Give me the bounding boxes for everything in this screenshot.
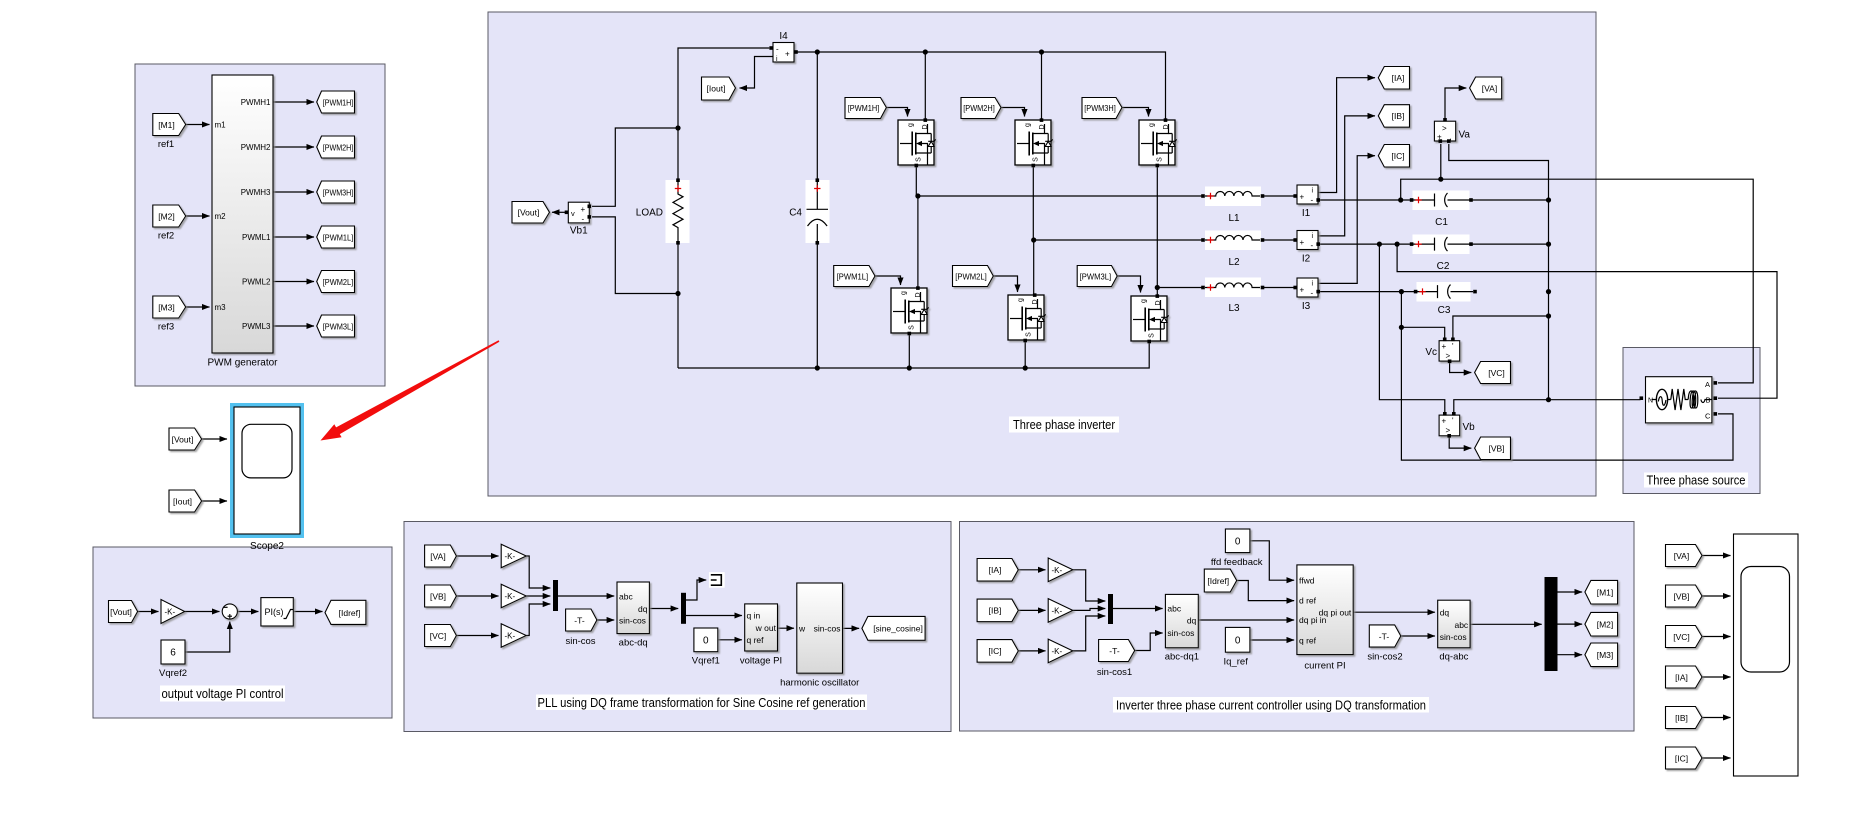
svg-text:[PWM3H]: [PWM3H] [1084,104,1116,113]
wire: phase B feed to source B [1397,244,1777,398]
wire: phase A row to L1 [918,195,1203,197]
svg-text:m3: m3 [215,303,227,312]
gain -K- (VA) [501,544,526,568]
svg-text:[PWM3L]: [PWM3L] [323,322,354,331]
wire: I1 minus to C1 left [1319,199,1413,201]
wire: Vb minus to source N [1454,400,1641,412]
svg-text:sin-cos1: sin-cos1 [1097,667,1132,678]
svg-text:L1: L1 [1228,213,1240,224]
wire: Vqref1 to q ref [718,639,742,641]
wire: Vc plus tap [1401,327,1444,339]
wire: [PWM1L] to FET1L gate [875,276,901,285]
svg-text:dq: dq [1440,608,1450,618]
svg-text:w: w [798,623,806,633]
svg-text:[Vout]: [Vout] [110,607,132,617]
wire: Va plus tap [1440,144,1442,179]
gain -K- (VC) [501,624,526,648]
svg-text:[VA]: [VA] [1674,551,1689,561]
node: C2 row source B tap [1395,242,1400,247]
wire: oscillator to [sine_cosine] [843,627,860,629]
current sensor I3 [1293,278,1320,312]
svg-text:[VC]: [VC] [1488,368,1505,378]
goto tag [M3] [1585,643,1618,667]
from tag [PWM1L] [834,266,875,287]
node: neutral Vc tap [1546,313,1551,318]
svg-text:[PWM2H]: [PWM2H] [323,143,354,152]
wire: [IA] to gain [1018,569,1045,571]
wire: C1 right to neutral [1471,199,1549,201]
demux (wide) [1545,577,1558,671]
PI controller PI(s) [261,598,293,626]
caption: Three phase inverter [1009,417,1119,433]
demux [681,593,686,624]
wire: demux to q in [686,615,742,617]
wire: Va v out to [VA] [1445,88,1466,120]
block abc-dq [617,582,649,649]
wire: [PWM3H] to FET3H gate [1122,108,1149,117]
svg-text:[IB]: [IB] [989,606,1002,616]
wire: Vc v out to [VC] [1450,362,1472,373]
svg-text:[Idref]: [Idref] [339,608,361,618]
wire: phase C row to L3 [1157,287,1203,289]
subsystem area: Three phase source [1623,348,1760,494]
svg-text:m1: m1 [215,121,227,130]
wire: L1 to I1 [1263,195,1295,197]
block harmonic oscillator [780,583,859,689]
goto tag [PWM3H] [317,181,355,203]
strip for inductor L3 [1205,278,1261,298]
node: phase C junction [1155,285,1160,290]
svg-text:PWML3: PWML3 [242,322,271,331]
from tag [M1] [153,114,186,151]
svg-text:+: + [1442,342,1447,351]
svg-text:sin-cos: sin-cos [565,636,595,647]
node: C2 row Vb tap [1377,242,1382,247]
from tag [PWM3H] [1082,98,1122,119]
svg-text:[VA]: [VA] [430,551,445,561]
block: PWM generator [207,75,278,369]
goto tag [Vout] [512,202,550,224]
svg-text:dq-abc: dq-abc [1439,652,1468,663]
svg-text:PLL using DQ frame transformat: PLL using DQ frame transformation for Si… [538,696,866,710]
wire: mux to abc port [558,595,614,597]
strip for capacitor C4 [806,180,830,243]
from tag [M2] [153,205,186,242]
svg-text:[IC]: [IC] [1675,753,1688,763]
subsystem area: Three phase inverter [488,12,1596,496]
scope block (6 input) [1734,534,1799,776]
sum junction [222,604,237,619]
wire: phase B row to L2 [1034,239,1203,241]
wire: FET1H drain drop [924,52,926,119]
svg-text:Vc: Vc [1425,347,1437,358]
wire: gain IC to mux [1073,616,1106,651]
node: neutral C2 [1546,242,1551,247]
block voltage PI [740,604,782,667]
from tag [IA] [977,559,1018,582]
svg-text:-T-: -T- [574,615,585,625]
wire: mux to abc-dq1 [1113,608,1163,610]
svg-text:ref3: ref3 [158,322,174,333]
transistor Q1L (lower FET phase A) [891,288,929,333]
svg-text:6: 6 [170,648,176,659]
svg-text:dq: dq [1187,616,1197,626]
svg-text:[IA]: [IA] [989,565,1002,575]
from tag [IA] [1666,666,1703,688]
svg-text:[VB]: [VB] [1673,591,1689,601]
svg-text:[VB]: [VB] [1488,443,1504,453]
caption: Three phase source [1644,473,1748,488]
wire: Vb v out to [VB] [1449,437,1471,449]
svg-text:-K-: -K- [1052,647,1063,656]
wire: Vb1 minus sense [592,217,678,294]
transistor Q2L (lower FET phase B) [1008,295,1046,340]
goto tag [PWM2H] [317,136,355,158]
svg-text:[VB]: [VB] [430,591,446,601]
wire: I2 i out to [IB] [1319,116,1376,236]
from tag [PWM1H] [845,98,886,119]
wire: LOAD top to I4 minus [678,48,769,181]
wire: [IA] to scope [1702,676,1731,678]
from tag [IB] [1666,707,1703,729]
transistor Q3L (lower FET phase C) [1131,296,1169,341]
svg-text:Vb1: Vb1 [570,226,588,237]
node: top rail FET2H D [1039,49,1044,54]
svg-text:ffd feedback: ffd feedback [1211,557,1263,568]
goto tag [IA] [1378,67,1409,90]
from tag [PWM2H] [961,98,1001,119]
svg-text:PI(s): PI(s) [265,607,284,617]
svg-text:sin-cos: sin-cos [814,623,841,633]
from tag [VA] [425,545,457,567]
from tag [VC] [425,625,457,647]
wire: dq-abc abc to demux [1470,623,1542,625]
svg-text:dq pi out: dq pi out [1319,607,1352,617]
svg-text:[M1]: [M1] [1597,587,1614,597]
wire: [Vout] to gain [138,611,159,613]
from tag [Vout] [109,601,138,623]
wire: M1 to m1 [186,124,210,126]
node: LOAD top / Vb1+ [675,125,680,130]
wire: LOAD bottom column [677,243,679,368]
node: phase B junction [1031,237,1036,242]
goto tag [M2] [1585,612,1618,636]
wire: dq out to demux [649,608,678,610]
wire: [VB] to scope [1702,595,1731,597]
svg-text:[Iout]: [Iout] [173,496,192,506]
wire: C4 bottom column [816,243,818,368]
current sensor I2 [1293,231,1320,265]
svg-text:ref2: ref2 [158,231,174,242]
svg-text:[IC]: [IC] [988,646,1001,656]
mux [1108,594,1113,624]
svg-text:+: + [1442,417,1447,426]
goto tag [IC] [1378,145,1409,168]
wire: [IB] to gain [1018,609,1045,611]
svg-text:>: > [1446,352,1451,361]
svg-text:Vb: Vb [1463,422,1476,433]
svg-text:q ref: q ref [747,635,765,645]
svg-text:current PI: current PI [1304,661,1345,672]
goto tag [Idref] [325,600,366,624]
svg-text:ffwd: ffwd [1299,575,1315,585]
wire: PWMH2 out [273,146,314,148]
svg-text:I2: I2 [1302,254,1311,265]
constant ffd feedback [1211,529,1263,568]
wire: demux to [M3] [1558,654,1583,656]
wire: [IC] to gain [1018,650,1045,652]
constant Iq_ref [1224,627,1250,667]
svg-text:B: B [1706,396,1711,405]
svg-text:[IB]: [IB] [1392,111,1405,121]
strip for inductor L2 [1205,231,1261,251]
svg-text:>: > [1442,124,1447,133]
from tag -T- (sin-cos) [565,609,596,647]
gain -K- (IA) [1048,558,1073,582]
wire: [Vout] to Scope2 in1 [202,438,227,440]
wire: gain2 to mux [526,595,550,597]
svg-text:-T-: -T- [1379,631,1390,641]
from tag [Iout] [169,490,202,512]
goto tag [VC] [1475,362,1511,384]
svg-text:[IA]: [IA] [1392,73,1405,83]
from tag [M3] [153,296,186,333]
svg-text:C4: C4 [789,208,802,219]
svg-text:abc-dq: abc-dq [619,638,648,649]
source block V3ph [1640,377,1718,423]
capacitor C1 [1410,193,1473,228]
AC source ellipse [1656,389,1667,409]
svg-text:C1: C1 [1435,217,1448,228]
wire: demux to [M1] [1558,591,1583,593]
wire: Vc minus to neutral [1453,316,1549,340]
svg-text:Va: Va [1459,130,1471,141]
capacitor C2 [1410,237,1473,272]
svg-text:harmonic oscillator: harmonic oscillator [780,678,859,689]
wire: C4 top column [816,52,818,180]
svg-text:[PWM1H]: [PWM1H] [848,104,880,113]
svg-text:Iq_ref: Iq_ref [1224,657,1249,668]
wire: gain IB to mux [1073,609,1106,611]
resistor LOAD [636,178,683,244]
wire: [VA] to scope [1702,555,1731,557]
subsystem area: PWM generator group [135,64,385,386]
svg-text:[VC]: [VC] [1673,632,1690,642]
scope Scope2 (selected) [232,405,302,552]
svg-text:I1: I1 [1302,208,1311,219]
svg-text:ref1: ref1 [158,139,174,150]
svg-text:PWML1: PWML1 [242,233,271,242]
svg-text:L2: L2 [1228,257,1240,268]
wire: sin-cos1 to abc-dq1 [1135,633,1163,651]
wire: w out to harmonic oscillator [778,627,795,629]
wire: sum to PI(s) [237,611,258,613]
svg-text:sin-cos: sin-cos [1167,628,1194,638]
node: bottom rail FET2L S [1023,365,1028,370]
svg-text:sin-cos: sin-cos [1440,632,1467,642]
wire: FET1L source drop [908,335,910,369]
svg-text:PWMH1: PWMH1 [241,98,271,107]
subsystem area: PLL [404,522,951,732]
node: bottom rail FET1L S [907,365,912,370]
wire: PWML1 out [273,236,314,238]
from tag [PWM3L] [1077,266,1117,287]
svg-text:w out: w out [755,623,777,633]
svg-text:A: A [1705,380,1710,389]
wire: [IC] to scope [1702,757,1731,759]
svg-text:+: + [1300,286,1305,295]
svg-text:-K-: -K- [505,552,516,561]
inductor L1 [1201,191,1264,224]
svg-text:PWMH2: PWMH2 [241,143,271,152]
svg-text:LOAD: LOAD [636,208,663,219]
wire: PWML3 out [273,325,314,327]
svg-text:-: - [582,215,585,224]
goto tag [sine_cosine] [862,616,925,640]
wire: [PWM3L] to FET3L gate [1117,276,1140,293]
wire: [Idref] to d ref [1237,581,1294,601]
svg-text:-K-: -K- [505,592,516,601]
svg-text:[Iout]: [Iout] [707,84,726,94]
svg-text:[PWM2H]: [PWM2H] [963,104,995,113]
svg-text:[IB]: [IB] [1675,713,1688,723]
from tag [Idref] [1204,569,1236,592]
svg-text:C2: C2 [1437,261,1450,272]
svg-text:q in: q in [747,611,761,621]
from tag [VA] [1666,545,1703,567]
node: phase A junction [915,193,920,198]
wire: sin-cos tag to abc-dq [597,619,614,621]
svg-text:+: + [581,205,586,214]
svg-text:Three phase inverter: Three phase inverter [1013,418,1115,432]
wire: Vb1 v out to [Vout] [552,211,566,213]
svg-text:[Vout]: [Vout] [518,207,540,217]
gain -K- (IB) [1048,599,1073,623]
caption: PLL [536,695,867,711]
svg-text:output voltage PI control: output voltage PI control [162,687,284,701]
svg-text:[IC]: [IC] [1391,151,1404,161]
wire: Va minus to neutral column [1449,144,1549,400]
wire: FET2L source drop [1024,342,1026,369]
from tag -T- (sin-cos1) [1097,640,1135,679]
svg-text:[M2]: [M2] [158,211,175,221]
node: Va plus tap [1438,177,1443,182]
wire: phase C column FET3H S to FET3L D [1156,166,1158,295]
wire: gain1 to mux [526,556,550,588]
svg-text:Inverter three phase current c: Inverter three phase current controller … [1116,699,1426,713]
svg-text:-T-: -T- [1109,646,1120,656]
wire: FET2H drain drop [1041,52,1043,119]
svg-text:C3: C3 [1438,305,1451,316]
goto tag [Iout] [702,77,736,100]
svg-text:m2: m2 [215,212,227,221]
svg-text:[VA]: [VA] [1482,83,1497,93]
wire: positive DC top rail [797,52,1166,119]
svg-text:abc: abc [1454,620,1468,630]
svg-text:d ref: d ref [1299,596,1317,606]
svg-text:0: 0 [1235,636,1241,647]
svg-text:sin-cos2: sin-cos2 [1367,652,1402,663]
wire: phase C feed to source C [1401,292,1733,461]
wire: PWMH3 out [273,191,314,193]
wire: PI(s) to [Idref] [293,611,322,613]
svg-text:[M3]: [M3] [1597,650,1614,660]
wire: [VA] to gain1 [456,555,498,557]
goto tag [VA] [1470,77,1502,99]
node: LOAD bottom / Vb1- [675,291,680,296]
svg-text:abc: abc [1167,604,1181,614]
node: phase A / C1 tap [1398,197,1403,202]
wire: Iq_ref to q ref [1250,639,1294,641]
svg-text:[PWM2L]: [PWM2L] [323,278,354,287]
strip for inductor L1 [1205,187,1261,207]
svg-text:-K-: -K- [1052,566,1063,575]
svg-text:abc: abc [619,592,633,602]
wire: phase A column FET1H S to FET1L D [916,166,918,287]
svg-text:abc-dq1: abc-dq1 [1165,652,1199,663]
goto tag [PWM1L] [317,226,355,248]
svg-text:sin-cos: sin-cos [619,616,646,626]
goto tag [VB] [1475,437,1511,460]
mux [553,580,558,611]
goto tag [PWM1H] [317,91,355,113]
gain -K- [161,600,185,624]
caption: current controller [1113,697,1429,713]
goto tag [M1] [1585,580,1618,604]
wire: demux to [M2] [1558,623,1583,625]
wire: M2 to m2 [186,215,210,217]
current sensor I1 [1293,185,1320,219]
wire: I1 i out to [IA] [1319,78,1376,193]
svg-text:[M2]: [M2] [1597,619,1614,629]
node: neutral N row [1546,397,1551,402]
svg-text:[PWM3L]: [PWM3L] [1080,272,1112,281]
svg-text:+: + [785,50,790,59]
wire: PWMH1 out [273,101,314,103]
wire: gain3 to mux [526,604,550,636]
wire: [IB] to scope [1702,717,1731,719]
from tag [IB] [977,599,1018,622]
svg-text:[PWM2L]: [PWM2L] [955,272,987,281]
wire: [PWM1H] to FET1H gate [886,108,907,117]
from tag [Vout] [169,428,202,450]
strip for capacitor C3 [1417,282,1471,302]
wire: neutral from C2 row to Vb plus [1379,244,1444,412]
wire: phase A feed to source A [1401,179,1754,383]
wire: gain IA to mux [1073,570,1106,601]
svg-text:[Vout]: [Vout] [172,434,194,444]
node: C3 row source C tap [1399,289,1404,294]
svg-text:Vqref1: Vqref1 [692,656,720,667]
svg-text:-: - [776,45,779,54]
wire: I4 i output to [Iout] [740,57,773,89]
svg-text:[IA]: [IA] [1675,672,1688,682]
wire: I3 i out to [IC] [1319,156,1376,284]
wire: [VB] to gain2 [456,595,498,597]
constant Vqref2 [159,640,187,679]
svg-text:[M3]: [M3] [158,302,175,312]
svg-text:L3: L3 [1228,303,1240,314]
voltage sensor Vb [1439,412,1475,438]
node: phase C Vc tap [1399,325,1404,330]
capacitor C4 [789,178,828,244]
wire: [Iout] to Scope2 in2 [202,500,227,502]
svg-text:+: + [1300,193,1305,202]
svg-text:dq: dq [638,604,648,614]
wire: Vb1 plus sense [592,128,678,206]
from tag [VC] [1666,626,1703,648]
svg-text:[PWM3H]: [PWM3H] [323,188,354,197]
